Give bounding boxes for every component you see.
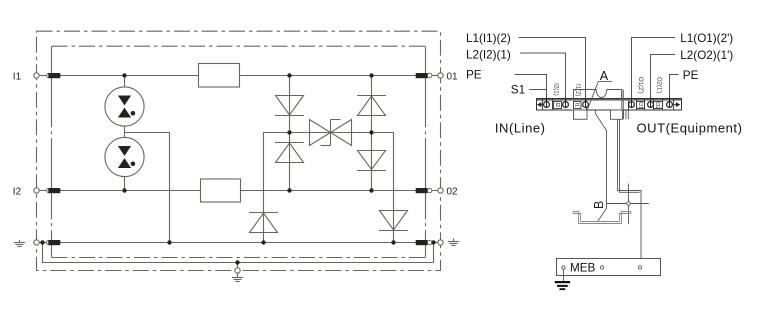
junction dots left schematic [40,73,435,264]
svg-text:IN(Line): IN(Line) [495,120,546,135]
wire I2-O2 line [37,190,441,192]
junction circle on rail conductor [627,202,631,206]
svg-text:O2(1'): O2(1') [656,77,662,93]
svg-text:S1: S1 [511,84,525,97]
wire left diode column [289,76,291,191]
MEB ground symbol [555,281,570,290]
MEB box [557,259,661,276]
terminal strip cell dividers [543,99,674,110]
svg-text:L2(O2)(1'): L2(O2)(1') [680,49,733,62]
leader L2(O2)(1') [651,55,676,105]
diode D4 [357,151,386,171]
ground symbol left [14,240,25,247]
terminal block PE left [47,240,61,245]
terminal strip top band [537,99,681,101]
svg-text:PE: PE [683,69,699,82]
leader L2(I2)(1) [520,53,565,105]
wire GDT column [124,76,126,191]
border terminal circles [34,73,443,273]
diode D5 [249,213,278,233]
earth wire from device to rail [596,110,607,222]
resistor R2 [201,179,241,202]
svg-text:PE: PE [466,68,482,81]
svg-text:L1(O1)(2'): L1(O1)(2') [680,32,733,45]
svg-text:I1: I1 [13,71,22,82]
svg-text:A: A [600,69,609,83]
svg-text:L2(I2)(1): L2(I2)(1) [466,48,511,61]
leader PE right [670,75,679,105]
MEB earth wire [563,269,565,281]
device bracket on strip [574,90,622,100]
device clamp lines [622,90,629,120]
inner enclosure border top (dash-dot) [52,45,426,47]
svg-text:I1(2): I1(2) [574,84,580,96]
ground symbol bottom center [232,273,243,281]
diode D1 [275,96,304,116]
strip end arrow right [676,102,681,107]
TVS suppressor diode (bidirectional) [310,120,352,146]
terminal block O1 [416,73,432,78]
equipment cable down [618,119,642,265]
marker tag I1 [574,102,582,109]
marker tag O2 [654,102,663,109]
svg-text:02: 02 [447,186,459,197]
inner enclosure border bottom (dash-dot) [52,257,426,259]
wire I1-O1 line [37,75,441,77]
wire PE bottom loop [43,243,434,263]
svg-text:O1(2'): O1(2') [637,77,643,93]
svg-text:MEB: MEB [570,262,596,275]
svg-text:I2: I2 [554,103,560,108]
diode D3 [357,96,386,116]
wire earth stub bottom center [237,263,239,269]
inner enclosure border left (solid) [51,46,53,257]
inner enclosure border right (solid) [425,46,427,257]
leader S1 [529,89,546,91]
outer enclosure border (dash-dot) [37,31,441,270]
device foot left [574,110,588,119]
terminal block PE right [416,240,432,245]
svg-text:L1(I1)(2): L1(I1)(2) [466,32,511,45]
DIN rail B [573,212,631,224]
leader A diagonal [587,82,598,111]
wire GDT midpoint to PE [125,133,170,243]
svg-text:O2: O2 [654,102,660,109]
resistor R1 [199,64,240,88]
rail earth conductor [607,203,649,205]
strip end arrow left [537,102,542,107]
terminal block I1 [47,73,61,78]
svg-text:I1: I1 [574,103,580,108]
terminal block I2 [47,188,61,193]
screw terminals [544,102,673,108]
svg-text:OUT(Equipment): OUT(Equipment) [637,120,743,135]
svg-text:B: B [592,201,606,209]
wire PE line [37,242,441,244]
svg-text:01: 01 [447,71,459,82]
svg-text:I2: I2 [13,186,22,197]
marker tag O1 [637,102,645,109]
wire right diode column [371,76,373,191]
wire TVS node link [290,132,372,134]
wire branch to diode D6 [372,133,394,243]
diode D6 [379,211,408,231]
terminal strip body [537,99,682,111]
MEB terminals [562,266,642,269]
leader PE left [515,75,547,105]
screw slots [547,99,670,108]
leader L1(I1)(2) [519,38,586,105]
svg-text:I2(1): I2(1) [553,83,559,95]
leader L1(O1)(2') [632,38,676,105]
device foot right [611,110,623,119]
svg-text:O1: O1 [637,102,643,109]
diode D2 [275,143,304,163]
rail bolt line [628,184,630,225]
wire branch to diode D5 [264,133,290,243]
terminal block O2 [416,188,432,193]
marker tag I2 [554,102,562,109]
gas discharge tube F2 [105,137,144,176]
ground symbol right [448,239,459,246]
gas discharge tube F1 [105,87,144,126]
